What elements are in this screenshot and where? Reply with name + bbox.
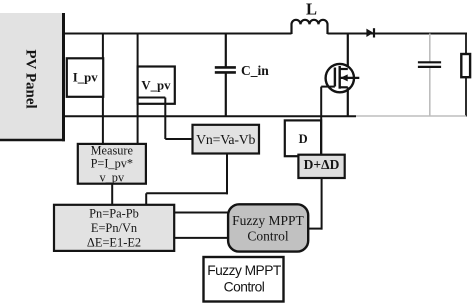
svg-text:ΔE=E1-E2: ΔE=E1-E2 <box>87 236 141 250</box>
svg-text:Pn=Pa-Pb: Pn=Pa-Pb <box>89 207 139 221</box>
svg-text:V_pv: V_pv <box>141 79 171 93</box>
svg-text:Control: Control <box>247 228 289 243</box>
svg-text:Fuzzy MPPT: Fuzzy MPPT <box>207 263 282 278</box>
svg-text:Fuzzy MPPT: Fuzzy MPPT <box>232 213 304 228</box>
svg-text:PV Panel: PV Panel <box>23 49 39 108</box>
svg-text:Measure: Measure <box>91 143 134 157</box>
svg-text:P=I_pv*: P=I_pv* <box>91 157 133 171</box>
svg-text:E=Pn/Vn: E=Pn/Vn <box>91 221 137 235</box>
svg-text:C_in: C_in <box>241 63 269 78</box>
svg-text:D: D <box>299 132 308 146</box>
svg-text:v_pv: v_pv <box>100 170 125 184</box>
svg-text:I_pv: I_pv <box>73 71 98 85</box>
svg-text:Vn=Va-Vb: Vn=Va-Vb <box>196 132 255 147</box>
svg-text:Control: Control <box>224 280 265 295</box>
svg-text:D+ΔD: D+ΔD <box>304 157 340 172</box>
svg-text:L: L <box>306 0 317 19</box>
